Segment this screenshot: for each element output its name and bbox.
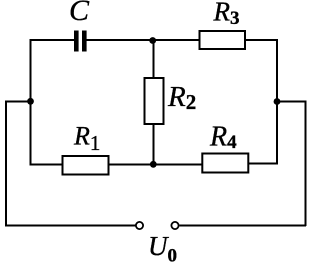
node left junction bbox=[27, 98, 34, 105]
wire left junction to outer left bbox=[5, 101, 31, 103]
capacitor C1 right plate bbox=[82, 31, 87, 52]
resistor R4 bbox=[202, 154, 248, 173]
svg-text:R1: R1 bbox=[73, 122, 100, 156]
resistor R3 bbox=[200, 31, 246, 49]
wire right junction to outer right bbox=[277, 101, 306, 103]
node bottom-middle junction bbox=[150, 161, 157, 168]
svg-text:C: C bbox=[69, 0, 90, 27]
wire R2 bottom lead bbox=[153, 124, 155, 165]
svg-text:R4: R4 bbox=[209, 121, 237, 153]
node right junction bbox=[274, 98, 281, 105]
wire R3 to top-right corner bbox=[245, 39, 278, 41]
svg-text:R3: R3 bbox=[213, 0, 240, 29]
wire R2 top lead bbox=[153, 40, 155, 79]
wire bottom right horizontal to terminal bbox=[180, 225, 307, 227]
terminal right (open circle) bbox=[171, 222, 178, 229]
svg-text:R2: R2 bbox=[167, 81, 196, 114]
wire outer right vertical bbox=[305, 101, 307, 227]
resistor R1 bbox=[63, 156, 109, 175]
resistor R2 bbox=[145, 78, 164, 124]
node top-middle junction bbox=[149, 37, 156, 44]
svg-text:U0: U0 bbox=[148, 231, 177, 267]
wire right vertical (top corner down to R4 row) bbox=[276, 39, 278, 165]
wire R4 to right vertical bbox=[248, 163, 278, 165]
wire outer left vertical bbox=[5, 101, 7, 227]
wire left to R1 bbox=[30, 164, 64, 166]
capacitor C1 left plate bbox=[74, 31, 79, 52]
wire top-left horizontal to capacitor bbox=[30, 39, 75, 41]
wire left vertical (top corner to R1 row) bbox=[30, 39, 32, 165]
wire bottom left horizontal from terminal bbox=[5, 225, 136, 227]
wire R1 to bottom-middle junction bbox=[109, 164, 203, 166]
wire capacitor to R3 bbox=[86, 39, 200, 41]
terminal left (open circle) bbox=[136, 222, 143, 229]
